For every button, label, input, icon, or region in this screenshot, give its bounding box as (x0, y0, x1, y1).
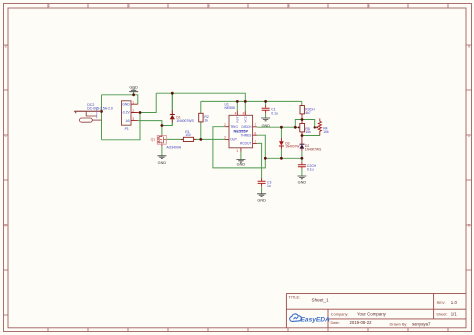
node OUT / R1 / R2 (199, 138, 202, 141)
svg-text:OUT: OUT (230, 138, 237, 142)
pin stub D1 cathode (171, 111, 173, 115)
svg-text:5: 5 (288, 4, 290, 8)
wire D2 column lower (301, 151, 303, 158)
wire DISCH row (257, 126, 295, 128)
node THRES rail left (264, 157, 267, 160)
node pot top (301, 118, 304, 121)
connector DC2 pin numbers (96, 108, 98, 118)
wire pot bottom loop (302, 135, 320, 137)
wire THRES/TRIG rail to diodes (265, 157, 302, 159)
svg-text:sanyaya7: sanyaya7 (412, 321, 431, 326)
wire DC jack right vertical (101, 95, 103, 140)
wire Q1 source to ground (161, 146, 163, 155)
pin stub C2 bottom (301, 167, 303, 169)
svg-text:3: 3 (132, 117, 134, 121)
svg-text:Q1: Q1 (151, 138, 156, 142)
node D2 bottom / C2 top (301, 157, 304, 160)
node D1 cathode on VCC rail (171, 92, 174, 95)
wire CONT pin to C3 (257, 143, 262, 178)
svg-text:THRES: THRES (241, 134, 252, 138)
wire D1 bottom link (162, 119, 172, 125)
pin stub Q1 source top bit (161, 144, 163, 146)
svg-text:VCC: VCC (243, 115, 247, 122)
svg-text:EasyEDA: EasyEDA (301, 317, 331, 324)
svg-text:GND: GND (122, 102, 130, 106)
node pot bottom (301, 134, 304, 137)
wire R2 bottom to OUT node (200, 122, 202, 139)
node RST pin on VCC line (236, 100, 239, 103)
node D3 top on DISCH row (280, 126, 283, 129)
potentiometer R4 (317, 119, 322, 136)
pin stub D1 anode (171, 119, 173, 122)
svg-text:TRIG: TRIG (230, 125, 238, 129)
svg-text:+3.2V: +3.2V (121, 111, 131, 115)
diode D1 1N4007WS (170, 115, 175, 120)
svg-text:AO3400A: AO3400A (166, 146, 181, 150)
svg-text:1.0: 1.0 (451, 300, 458, 305)
wire D1 top to VCC rail (171, 93, 173, 114)
wire R5 wiper left loop (295, 120, 302, 128)
svg-text:2019-08-22: 2019-08-22 (350, 320, 373, 325)
ground under C2 (297, 176, 306, 179)
wire C3 bottom to ground (261, 186, 263, 193)
wire GND rail from DC jack to P1 pin1 (102, 95, 138, 104)
svg-text:100: 100 (185, 133, 191, 137)
pin stub D2 bottom (301, 148, 303, 151)
node C1 on VCC line (264, 100, 267, 103)
svg-text:DC-005-2.5A-2.0: DC-005-2.5A-2.0 (87, 107, 113, 111)
svg-text:B: B (468, 45, 470, 49)
ground under Q1 (157, 156, 166, 159)
label U1 pin numbers top 4 8 (235, 111, 245, 115)
wire VCC secondary line (201, 100, 302, 102)
svg-text:Date:: Date: (331, 320, 340, 325)
svg-text:GND: GND (158, 161, 167, 165)
pin stub R3CH bottom (301, 114, 303, 120)
svg-text:Company:: Company: (331, 311, 349, 316)
svg-text:GND: GND (237, 162, 246, 166)
IC U1 pin stubs (225, 127, 257, 144)
wire R2 top stub (200, 101, 202, 113)
wire 555 RST VCC top stubs (237, 101, 245, 111)
wire Q1 gate to R1 (166, 138, 183, 140)
wire R3CH top (301, 101, 303, 105)
wire VCC top rail (156, 93, 245, 101)
EasyEDA logo (290, 314, 330, 324)
pin stub R5 top (301, 120, 303, 124)
wire R4 wiper right loop (302, 120, 317, 128)
svg-text:1N4007WS: 1N4007WS (176, 119, 194, 123)
wire P1 pin2 to VCC riser (138, 93, 156, 112)
wire TRIG loop (213, 127, 265, 168)
capacitor C1 (262, 108, 270, 110)
wire R5 wiper arrow stub (295, 126, 298, 128)
resistor R3CH (300, 106, 304, 114)
label U1 side pin numbers (224, 123, 256, 153)
diode D3 1N4007 (279, 141, 284, 146)
svg-text:8: 8 (243, 111, 245, 115)
svg-text:7: 7 (254, 123, 256, 127)
node VCC pin on VCC line (244, 100, 247, 103)
svg-text:A0: A0 (126, 119, 130, 123)
pin stub D3 top (280, 138, 282, 141)
svg-text:0.1u: 0.1u (271, 111, 278, 115)
svg-text:GND: GND (298, 181, 307, 185)
node R5 wiper / DISCH (294, 126, 297, 129)
capacitor C3 (258, 181, 266, 183)
svg-text:1/1: 1/1 (451, 312, 458, 317)
node P1 pin2 junction (139, 111, 142, 114)
node D1 anode / Q1 drain (161, 124, 164, 127)
pin stub C3 bottom (261, 183, 263, 186)
transistor Q1 AO3400A (157, 135, 166, 144)
svg-text:1N4007W: 1N4007W (285, 145, 299, 149)
wire C2 column (301, 158, 303, 176)
node DC jack tip (100, 110, 103, 113)
svg-text:6: 6 (254, 132, 256, 136)
pin stub C1 top (265, 105, 267, 108)
svg-text:TITLE:: TITLE: (289, 294, 301, 299)
connector DC2 barrel jack (75, 111, 102, 122)
node GND flag on rail (132, 93, 135, 96)
svg-text:RST: RST (235, 116, 239, 122)
svg-text:RCOUT: RCOUT (240, 142, 251, 146)
svg-text:Your Company: Your Company (357, 312, 387, 317)
svg-text:1: 1 (254, 140, 256, 144)
ground under C1 (261, 118, 270, 121)
svg-text:2: 2 (48, 4, 50, 8)
IC U1 NE555P (229, 115, 253, 148)
svg-text:10k: 10k (323, 130, 329, 134)
svg-text:Sheet_1: Sheet_1 (312, 298, 330, 303)
svg-text:0.1u: 0.1u (307, 168, 314, 172)
svg-text:10k: 10k (305, 130, 311, 134)
svg-text:Sheet:: Sheet: (436, 312, 447, 317)
svg-text:4: 4 (235, 111, 237, 115)
svg-text:6: 6 (368, 4, 370, 8)
svg-text:NE555: NE555 (225, 106, 235, 110)
svg-text:4k7: 4k7 (305, 111, 311, 115)
svg-text:1: 1 (132, 101, 134, 105)
wire P1 pin3 to D1/Q1 node (138, 121, 162, 135)
diode D2 1N4007WS (300, 144, 305, 148)
node R4 wiper (314, 126, 316, 128)
svg-text:2: 2 (224, 123, 226, 127)
pin stub C3 top (261, 178, 263, 181)
wire C1 column (265, 101, 267, 117)
trimmer R5 (298, 124, 305, 132)
ground under C3 (257, 194, 266, 197)
pin stub C1 bottom (265, 110, 267, 113)
pin stub 555 RST VCC (237, 111, 245, 115)
resistor R1 (181, 137, 196, 141)
wire D1 bottom lower segment (171, 122, 173, 125)
wire D3 column (280, 127, 282, 158)
svg-text:1N4007WS: 1N4007WS (305, 148, 321, 152)
label P1 pin numbers (132, 101, 134, 121)
svg-text:1u: 1u (267, 184, 271, 188)
resistor R2 (199, 113, 203, 122)
pin stub R5 bottom (301, 132, 303, 136)
pin stub 555 GND (240, 148, 242, 152)
svg-text:Drawn By:: Drawn By: (390, 321, 408, 326)
wire OUT row (194, 138, 225, 140)
wire 555 GND stub (240, 152, 242, 160)
svg-text:1: 1 (236, 149, 238, 153)
svg-text:REV:: REV: (437, 300, 446, 305)
header P1 (122, 101, 138, 125)
wire GND flag stub above P1 (133, 92, 135, 95)
svg-text:3: 3 (128, 4, 130, 8)
wire D1 top upper segment (171, 93, 173, 110)
svg-text:P1: P1 (125, 127, 129, 131)
ground flag above P1 (inverted) (129, 89, 138, 92)
capacitor C2 (298, 165, 306, 167)
svg-text:1k: 1k (204, 119, 208, 123)
svg-text:4: 4 (208, 4, 210, 8)
pin stub C2 top (301, 162, 303, 165)
svg-text:2: 2 (132, 109, 134, 113)
svg-text:B: B (5, 45, 7, 49)
svg-text:3: 3 (224, 136, 226, 140)
node D3 bottom on rail (280, 157, 283, 160)
wire +3.2V loop bottom (102, 113, 141, 140)
pin stub D2 top (301, 136, 303, 145)
ground under U1 (236, 159, 245, 162)
svg-text:GND: GND (262, 124, 271, 128)
svg-text:GND: GND (129, 85, 138, 89)
svg-text:GND: GND (257, 198, 266, 202)
pin stub D3 bottom (280, 146, 282, 149)
svg-text:DISCH: DISCH (241, 125, 252, 129)
